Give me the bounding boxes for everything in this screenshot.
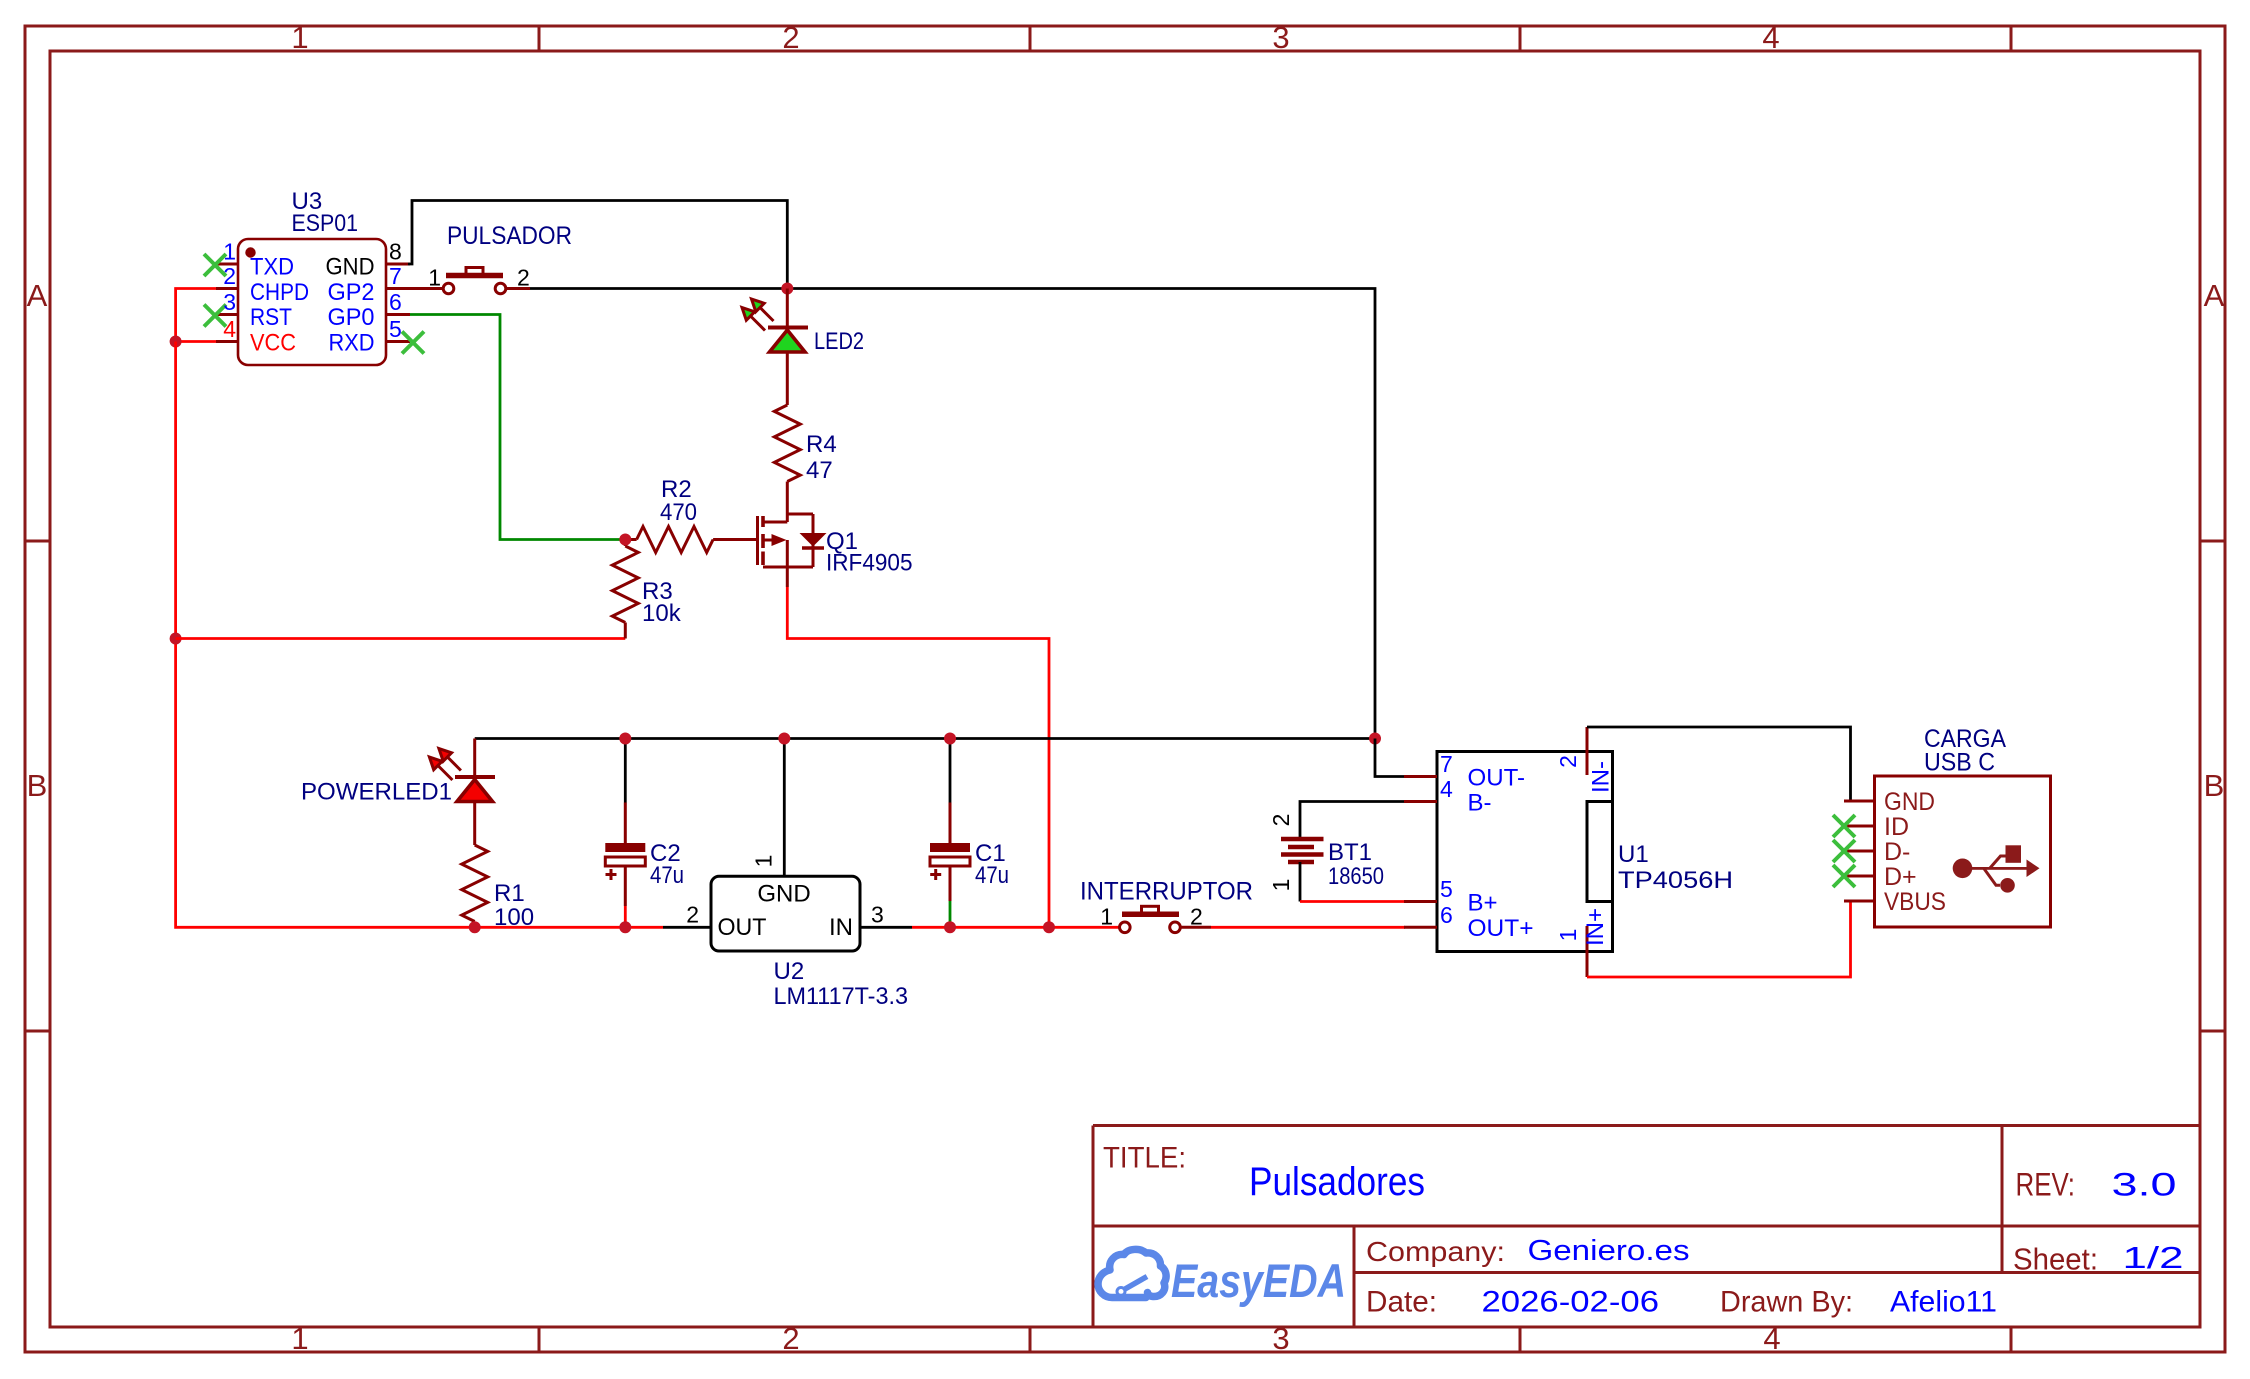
U1 pin 1 IN+ vertical stub	[1586, 926, 1589, 977]
wire Q1 source down	[786, 567, 789, 587]
row tick marks left	[25, 541, 50, 1031]
capacitor C1	[949, 739, 952, 803]
wire GND net from U3 pin8 up and over	[408, 201, 787, 289]
svg-text:5: 5	[389, 316, 402, 342]
svg-text:ESP01: ESP01	[292, 210, 359, 237]
svg-text:47u: 47u	[975, 862, 1009, 889]
wire CHPD to left vertical	[176, 289, 216, 342]
svg-text:TXD: TXD	[250, 254, 294, 281]
node gate junction	[619, 534, 631, 546]
svg-text:2: 2	[223, 263, 236, 289]
U3 pin 6 GP0	[386, 313, 410, 316]
svg-text:Sheet:: Sheet:	[2013, 1242, 2098, 1277]
svg-text:1: 1	[1100, 904, 1113, 930]
svg-text:POWERLED1: POWERLED1	[301, 779, 452, 806]
resistor R4	[774, 405, 800, 482]
svg-text:LM1117T-3.3: LM1117T-3.3	[774, 983, 909, 1010]
svg-text:ID: ID	[1884, 813, 1909, 841]
svg-text:Pulsadores: Pulsadores	[1249, 1160, 1425, 1204]
EasyEDA logo cloud	[1098, 1249, 1166, 1297]
svg-text:GND: GND	[326, 254, 375, 281]
no-connect X U3 pin3	[204, 305, 226, 327]
node VCC junction	[170, 336, 182, 348]
U3 pin 7 GP2	[386, 287, 410, 290]
svg-text:2: 2	[1190, 904, 1203, 930]
U1 pin 5 B+ stub	[1404, 900, 1437, 903]
svg-text:18650: 18650	[1328, 863, 1384, 890]
no-connect X U3 pin1	[204, 254, 226, 276]
U1 pin 2 IN- vertical stub	[1586, 727, 1589, 775]
pushbutton INTERRUPTOR	[1120, 906, 1212, 932]
svg-text:2: 2	[1555, 755, 1581, 768]
no-connect X U3 pin5	[402, 332, 424, 354]
svg-text:OUT+: OUT+	[1468, 915, 1534, 942]
no-connect X ID	[1833, 815, 1855, 837]
svg-text:Date:: Date:	[1366, 1286, 1437, 1319]
node C2 bottom junction	[619, 921, 631, 933]
wire GP0 green to gate node	[410, 315, 620, 540]
svg-text:6: 6	[389, 289, 402, 315]
svg-text:Company:: Company:	[1366, 1236, 1505, 1267]
wire BT1 plus to B+	[1300, 900, 1405, 903]
svg-text:U2: U2	[774, 958, 805, 985]
node Q1 wire rail junction	[1043, 921, 1055, 933]
svg-text:3: 3	[1272, 1321, 1289, 1356]
wire vbat to R3 bottom	[176, 637, 626, 640]
svg-text:47u: 47u	[650, 862, 684, 889]
svg-text:5: 5	[1440, 876, 1453, 902]
svg-text:1: 1	[751, 855, 777, 868]
U2 pin 2 OUT stub	[663, 926, 711, 929]
U3 pin 5 RXD	[386, 340, 410, 343]
U3 pin1 dot	[245, 247, 255, 257]
module U1 TP4056H	[1437, 752, 1613, 952]
wire left vertical down to rail	[176, 342, 663, 928]
resistor R3	[624, 540, 627, 547]
U2 pin 1 GND vertical	[783, 739, 786, 877]
LED LED2	[786, 289, 789, 328]
svg-text:A: A	[27, 278, 48, 313]
wire IN+ to USB VBUS	[1587, 901, 1851, 977]
U3 pin 8 GND	[386, 263, 410, 266]
Q1 channel arrow	[772, 534, 787, 546]
svg-text:CHPD: CHPD	[250, 279, 309, 306]
USB pin GND	[1844, 800, 1875, 803]
svg-text:GP2: GP2	[328, 279, 375, 306]
column tick marks top	[539, 26, 2011, 51]
svg-text:TP4056H: TP4056H	[1618, 867, 1733, 894]
U2 pin 3 IN stub	[860, 926, 912, 929]
node gnd rail right junction	[1369, 733, 1381, 745]
svg-text:2: 2	[782, 1321, 799, 1356]
U3 ESP01 body	[238, 239, 386, 365]
svg-text:Drawn By:: Drawn By:	[1720, 1286, 1853, 1319]
svg-text:INTERRUPTOR: INTERRUPTOR	[1080, 878, 1253, 906]
wire PULSADOR to right drop	[530, 289, 1375, 739]
svg-text:RST: RST	[250, 304, 292, 331]
svg-text:4: 4	[223, 316, 236, 342]
battery BT1	[1300, 802, 1404, 840]
row tick marks right	[2200, 541, 2225, 1031]
node R1 junction	[469, 921, 481, 933]
svg-text:1/2: 1/2	[2123, 1240, 2184, 1275]
svg-text:GND: GND	[1884, 788, 1935, 816]
C1 plus sign	[930, 869, 941, 880]
svg-text:3: 3	[1272, 20, 1289, 55]
svg-text:IN+: IN+	[1582, 908, 1609, 946]
U3 pin 3 RST	[216, 313, 238, 316]
pushbutton PULSADOR	[410, 268, 530, 294]
svg-text:3: 3	[223, 289, 236, 315]
node U2 gnd junction	[778, 733, 790, 745]
wire VCC stub	[176, 340, 216, 343]
U3 pin 4 VCC	[216, 340, 238, 343]
svg-text:1: 1	[1555, 929, 1581, 942]
svg-text:1: 1	[291, 20, 308, 55]
svg-text:2026-02-06: 2026-02-06	[1482, 1286, 1660, 1319]
svg-text:A: A	[2204, 278, 2225, 313]
wire U2 IN to rail	[912, 926, 1120, 929]
U1 pin 4 B- stub	[1404, 800, 1437, 803]
svg-text:IN: IN	[829, 914, 853, 941]
svg-text:OUT: OUT	[718, 914, 767, 941]
svg-text:EasyEDA: EasyEDA	[1171, 1254, 1346, 1307]
svg-text:7: 7	[389, 263, 402, 289]
svg-text:R1: R1	[494, 880, 525, 907]
LED POWERLED1	[473, 739, 476, 778]
svg-text:USB C: USB C	[1924, 749, 1995, 777]
title block outline	[1093, 1126, 2200, 1328]
wire gnd rail to U1 OUT-	[1375, 739, 1404, 777]
svg-text:4: 4	[1440, 776, 1453, 802]
svg-text:D+: D+	[1884, 863, 1917, 891]
svg-text:4: 4	[1762, 20, 1779, 55]
POWERLED1 emission arrows	[429, 749, 461, 781]
svg-text:OUT-: OUT-	[1468, 765, 1526, 792]
svg-text:B: B	[2204, 768, 2225, 803]
svg-text:6: 6	[1440, 902, 1453, 928]
USB pin VBUS	[1844, 900, 1875, 903]
wire INTERRUPTOR to OUT+	[1211, 926, 1405, 929]
node left mid junction	[170, 633, 182, 645]
svg-text:REV:: REV:	[2016, 1167, 2076, 1203]
node C1 top junction	[944, 733, 956, 745]
svg-text:470: 470	[660, 499, 697, 526]
svg-text:BT1: BT1	[1328, 839, 1372, 866]
svg-text:3: 3	[871, 902, 884, 928]
svg-text:47: 47	[806, 457, 833, 484]
node C2 top junction	[619, 733, 631, 745]
svg-text:1: 1	[428, 265, 441, 291]
wire gnd rail	[475, 737, 1375, 740]
svg-text:IN-: IN-	[1588, 761, 1615, 793]
U3 pin 1 TXD	[216, 263, 238, 266]
svg-text:1: 1	[291, 1321, 308, 1356]
svg-text:1: 1	[223, 239, 236, 265]
svg-text:PULSADOR: PULSADOR	[447, 222, 572, 250]
Q1 body diode triangle	[800, 533, 827, 547]
node LED2 top junction	[781, 283, 793, 295]
svg-text:B: B	[27, 768, 48, 803]
svg-text:GND: GND	[757, 881, 810, 908]
svg-text:GP0: GP0	[328, 304, 375, 331]
svg-text:IRF4905: IRF4905	[826, 550, 913, 577]
svg-text:B+: B+	[1468, 890, 1498, 917]
connector CARGA USB C body	[1875, 776, 2051, 927]
svg-text:D-: D-	[1884, 838, 1910, 866]
svg-text:U1: U1	[1618, 841, 1649, 868]
svg-text:2: 2	[1268, 814, 1294, 827]
resistor R2	[625, 538, 636, 541]
svg-text:1: 1	[1268, 879, 1294, 892]
svg-text:Geniero.es: Geniero.es	[1528, 1235, 1690, 1267]
svg-text:TITLE:: TITLE:	[1103, 1142, 1186, 1175]
svg-text:10k: 10k	[642, 600, 682, 627]
svg-text:8: 8	[389, 239, 402, 265]
svg-text:R4: R4	[806, 431, 837, 458]
USB pin ID	[1844, 825, 1875, 828]
no-connect X D+	[1833, 865, 1855, 887]
capacitor C2	[624, 739, 627, 803]
svg-text:7: 7	[1440, 751, 1453, 777]
svg-text:VBUS: VBUS	[1884, 888, 1946, 916]
svg-text:B-: B-	[1468, 790, 1492, 817]
column tick marks bottom	[539, 1327, 2011, 1352]
svg-text:100: 100	[494, 904, 534, 931]
resistor R1	[462, 845, 488, 922]
svg-text:3.0: 3.0	[2112, 1167, 2177, 1203]
svg-text:LED2: LED2	[814, 328, 864, 355]
wire IN- to USB GND	[1587, 727, 1851, 801]
svg-text:2: 2	[782, 20, 799, 55]
U1 pin 7 OUT- stub	[1404, 775, 1437, 778]
svg-text:4: 4	[1763, 1321, 1780, 1356]
svg-text:Afelio11: Afelio11	[1890, 1286, 1997, 1319]
USB pin D-	[1844, 850, 1875, 853]
svg-text:2: 2	[517, 265, 530, 291]
LED2 emission arrows	[742, 299, 774, 331]
USB pin D+	[1844, 875, 1875, 878]
U1 pin 6 OUT+ stub	[1404, 926, 1437, 929]
U3 pin 2 CHPD	[216, 287, 238, 290]
svg-text:VCC: VCC	[250, 330, 296, 357]
regulator U2 LM1117T-3.3	[711, 876, 860, 951]
transistor Q1 IRF4905	[758, 514, 825, 567]
C2 plus sign	[606, 869, 617, 880]
no-connect X D-	[1833, 840, 1855, 862]
USB trident icon	[1953, 845, 2040, 892]
svg-text:2: 2	[686, 902, 699, 928]
svg-text:RXD: RXD	[329, 330, 375, 357]
node C1 bottom junction	[944, 921, 956, 933]
